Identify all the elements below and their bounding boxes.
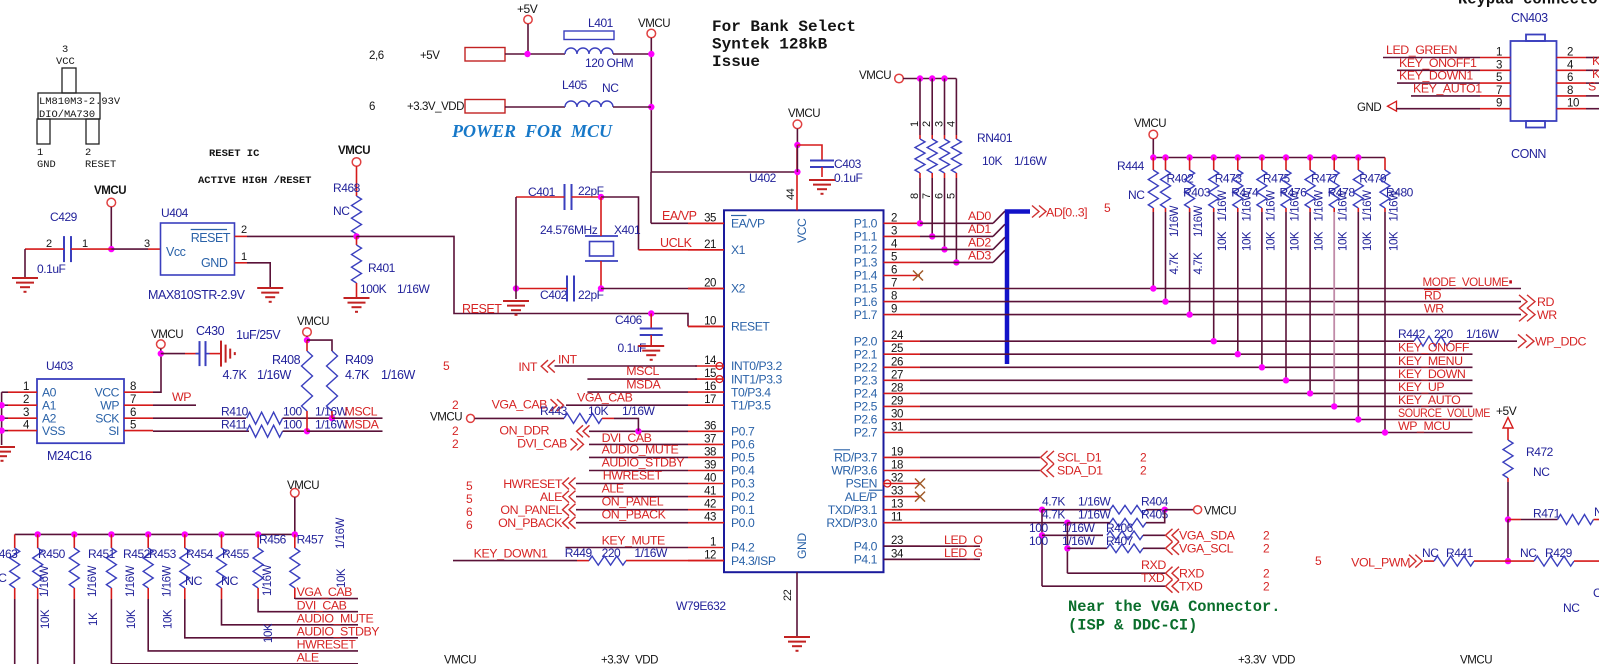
svg-text:W79E632: W79E632 bbox=[676, 599, 726, 613]
junction R408 bottom bbox=[304, 428, 310, 434]
resistor R443 10K bbox=[475, 417, 565, 419]
power flag VMCU (R404) bbox=[1194, 506, 1202, 514]
wire RD row bbox=[920, 301, 1521, 303]
wire U403 VCC to VMCU bbox=[153, 354, 161, 393]
ground at U402 bbox=[784, 637, 810, 651]
port RXD bbox=[1166, 567, 1180, 580]
svg-text:P0.5: P0.5 bbox=[731, 451, 755, 465]
svg-text:4.7K: 4.7K bbox=[1193, 252, 1205, 275]
svg-text:NC: NC bbox=[1594, 505, 1599, 519]
svg-text:1/16W: 1/16W bbox=[87, 565, 99, 597]
svg-text:1/16W: 1/16W bbox=[1362, 190, 1374, 222]
svg-text:CONN: CONN bbox=[1511, 147, 1546, 161]
U402 internal pin names bbox=[731, 216, 883, 568]
svg-text:WR: WR bbox=[1537, 308, 1557, 322]
svg-text:+3.3V_VDD: +3.3V_VDD bbox=[407, 101, 464, 113]
svg-text:ALE/P: ALE/P bbox=[845, 490, 878, 504]
junction L405/VMCU bbox=[648, 104, 654, 110]
wire U404 pin1 to ground bbox=[235, 262, 247, 264]
svg-text:UCLK: UCLK bbox=[660, 236, 693, 250]
wire U403 SI row bbox=[153, 430, 249, 432]
svg-text:RXD: RXD bbox=[1141, 558, 1166, 572]
resistor R403 4.7K bbox=[1183, 154, 1211, 317]
svg-text:5: 5 bbox=[1315, 554, 1322, 568]
svg-text:1: 1 bbox=[82, 238, 88, 250]
svg-text:R408: R408 bbox=[272, 353, 301, 367]
svg-text:MSCL: MSCL bbox=[626, 364, 659, 378]
wire to VMCU flag bbox=[1165, 509, 1194, 511]
svg-text:100K: 100K bbox=[360, 282, 387, 296]
svg-text:+3.3V_VDD: +3.3V_VDD bbox=[1238, 655, 1295, 664]
wire +5V box to L401 bbox=[505, 53, 565, 55]
junction VMCU/C403 bbox=[794, 142, 800, 148]
resistor R451 bbox=[69, 531, 79, 664]
wire KEY_ONOFF1 bbox=[1397, 69, 1480, 71]
svg-text:AD3: AD3 bbox=[968, 248, 991, 262]
svg-text:TXD: TXD bbox=[1141, 571, 1165, 585]
wire MODE_VOLUME row bbox=[920, 288, 1521, 290]
U402 left pin stubs bbox=[688, 223, 724, 560]
svg-text:P0.1: P0.1 bbox=[731, 503, 755, 517]
wire VGA_CAB row bbox=[566, 404, 688, 406]
ground at R401 bbox=[344, 298, 370, 312]
U402 pin numbers bbox=[704, 212, 904, 561]
svg-text:RESET IC: RESET IC bbox=[209, 148, 260, 160]
svg-text:AD0: AD0 bbox=[968, 209, 991, 223]
svg-text:10K: 10K bbox=[1290, 231, 1302, 251]
svg-text:VCC: VCC bbox=[56, 56, 75, 68]
svg-text:P2.6: P2.6 bbox=[854, 413, 878, 427]
svg-text:1: 1 bbox=[37, 147, 43, 159]
svg-text:100: 100 bbox=[283, 405, 302, 419]
svg-text:R410: R410 bbox=[221, 405, 249, 419]
svg-text:P2.5: P2.5 bbox=[854, 400, 878, 414]
svg-text:2: 2 bbox=[452, 398, 459, 412]
wire L405 to VMCU node bbox=[613, 106, 651, 108]
svg-text:VCC: VCC bbox=[795, 218, 809, 243]
svg-text:1K: 1K bbox=[88, 612, 100, 626]
svg-text:Issue: Issue bbox=[712, 53, 760, 71]
svg-text:6: 6 bbox=[369, 101, 375, 113]
svg-text:VMCU: VMCU bbox=[638, 18, 670, 30]
svg-text:NC: NC bbox=[333, 204, 350, 218]
svg-text:2: 2 bbox=[241, 224, 247, 236]
svg-text:NC: NC bbox=[1533, 465, 1550, 479]
svg-text:CN403: CN403 bbox=[1511, 11, 1548, 25]
svg-text:RXD/P3.0: RXD/P3.0 bbox=[826, 516, 877, 530]
junction VOL_PWM bbox=[1505, 558, 1511, 564]
svg-text:NC: NC bbox=[1563, 601, 1580, 615]
junction AD0 bbox=[917, 220, 923, 226]
wire SCL_D1 row bbox=[920, 456, 1040, 458]
svg-text:RESET: RESET bbox=[85, 159, 116, 171]
svg-text:24.576MHz: 24.576MHz bbox=[540, 223, 598, 237]
svg-text:U402: U402 bbox=[749, 171, 777, 185]
wire P2.0/WP_DDC row bbox=[920, 340, 1414, 342]
svg-text:T1/P3.5: T1/P3.5 bbox=[731, 398, 771, 412]
svg-text:4.7K: 4.7K bbox=[223, 368, 248, 382]
svg-text:VMCU: VMCU bbox=[788, 108, 820, 120]
svg-text:LED_O: LED_O bbox=[944, 533, 983, 547]
svg-text:44: 44 bbox=[785, 188, 797, 200]
svg-text:5: 5 bbox=[443, 359, 450, 373]
svg-text:NC: NC bbox=[1520, 546, 1537, 560]
wire C429 left to ground bbox=[25, 248, 64, 250]
svg-text:P0.4: P0.4 bbox=[731, 464, 755, 478]
wire KEY_DOWN1 row bbox=[453, 560, 577, 562]
port TXD bbox=[1166, 580, 1180, 593]
svg-text:RD: RD bbox=[1424, 289, 1441, 303]
resistor R479 10K bbox=[1353, 154, 1387, 422]
junction R443/ON_DDR bbox=[635, 428, 641, 434]
wire MSDA to pin16 bbox=[587, 391, 688, 393]
svg-text:INT: INT bbox=[558, 353, 577, 367]
svg-text:2: 2 bbox=[921, 121, 933, 127]
svg-text:INT1/P3.3: INT1/P3.3 bbox=[731, 372, 782, 386]
svg-text:P1.3: P1.3 bbox=[854, 256, 878, 270]
wire R443 to ON_DDR bbox=[614, 418, 638, 431]
svg-text:1/16W: 1/16W bbox=[1014, 154, 1048, 168]
svg-text:KEY_DOWN: KEY_DOWN bbox=[1398, 367, 1465, 381]
svg-text:0.1uF: 0.1uF bbox=[37, 262, 66, 276]
svg-text:5: 5 bbox=[466, 492, 473, 506]
resistor R408 4.7K bbox=[306, 340, 308, 351]
junction C402 ground leg bbox=[513, 285, 519, 291]
wire RN401 top bus bbox=[903, 78, 956, 80]
wire reset net R401 to C406/pin10 bbox=[357, 236, 689, 326]
wire C429 right to U404 pin 3 bbox=[71, 248, 111, 250]
wire RXD row bbox=[920, 522, 1067, 524]
svg-text:1/16W: 1/16W bbox=[1314, 190, 1326, 222]
junction R409 bottom bbox=[329, 415, 335, 421]
wire vertical C401-C402-ground bbox=[515, 197, 517, 289]
resistor R476 10K bbox=[1280, 154, 1308, 383]
wire RXD vertical bbox=[1066, 523, 1068, 574]
svg-text:WP_MCU: WP_MCU bbox=[1398, 419, 1450, 433]
svg-text:R451: R451 bbox=[88, 547, 116, 561]
junction TXD/R404 bbox=[1039, 507, 1045, 513]
wire AUDIO_MUTE row bbox=[589, 456, 688, 458]
svg-text:10K: 10K bbox=[982, 154, 1002, 168]
wire DVI_CAB row bbox=[589, 443, 688, 445]
svg-text:R456: R456 bbox=[259, 533, 287, 547]
svg-text:P0.7: P0.7 bbox=[731, 425, 755, 439]
svg-text:R463: R463 bbox=[0, 547, 18, 561]
note: bank select title bbox=[712, 18, 856, 71]
ground at U403 bbox=[0, 447, 15, 461]
capacitor C403 0.1uF bbox=[797, 145, 822, 161]
wire C401 right to crystal node bbox=[572, 196, 602, 198]
svg-text:AUDIO_MUTE: AUDIO_MUTE bbox=[602, 442, 679, 456]
svg-text:+5V: +5V bbox=[420, 50, 440, 62]
svg-text:AD2: AD2 bbox=[968, 235, 991, 249]
svg-text:ON_PANEL: ON_PANEL bbox=[602, 495, 664, 509]
junction VCC/EAVP bbox=[794, 169, 800, 175]
svg-text:1/16W: 1/16W bbox=[1290, 190, 1302, 222]
port AD[0..3] bbox=[1032, 206, 1046, 218]
svg-text:WP: WP bbox=[100, 399, 119, 413]
svg-text:2: 2 bbox=[452, 424, 459, 438]
svg-text:S: S bbox=[1588, 80, 1596, 94]
svg-text:P1.7: P1.7 bbox=[854, 308, 878, 322]
svg-text:0.1uF: 0.1uF bbox=[834, 171, 863, 185]
svg-text:P1.5: P1.5 bbox=[854, 282, 878, 296]
svg-text:R452: R452 bbox=[123, 547, 151, 561]
wire ON_PANEL row bbox=[576, 509, 688, 511]
wire LED_G bbox=[884, 558, 981, 560]
port box +5V bbox=[465, 48, 505, 62]
svg-text:P4.0: P4.0 bbox=[854, 539, 878, 553]
svg-text:1/16W: 1/16W bbox=[1338, 190, 1350, 222]
junction AD3 bbox=[953, 259, 959, 265]
svg-text:P0.0: P0.0 bbox=[731, 516, 755, 530]
svg-text:RD/P3.7: RD/P3.7 bbox=[834, 451, 878, 465]
junction RESET/C406 bbox=[648, 310, 654, 316]
svg-text:SI: SI bbox=[108, 424, 119, 438]
wire LED_GREEN bbox=[1383, 57, 1480, 59]
svg-text:INT: INT bbox=[518, 360, 537, 374]
svg-text:1/16W: 1/16W bbox=[262, 564, 274, 596]
svg-text:1/16W: 1/16W bbox=[1217, 190, 1229, 222]
svg-text:120 OHM: 120 OHM bbox=[585, 56, 634, 70]
svg-text:P2.0: P2.0 bbox=[854, 334, 878, 348]
svg-text:C429: C429 bbox=[50, 210, 78, 224]
wire bottom bank bus bbox=[15, 533, 295, 535]
svg-text:A0: A0 bbox=[42, 386, 57, 400]
svg-text:1/16W: 1/16W bbox=[162, 565, 174, 597]
svg-text:1/16W: 1/16W bbox=[397, 282, 431, 296]
junction AD2 bbox=[941, 246, 947, 252]
svg-text:P0.6: P0.6 bbox=[731, 438, 755, 452]
svg-text:VMCU: VMCU bbox=[151, 329, 183, 341]
svg-text:P2.1: P2.1 bbox=[854, 347, 878, 361]
svg-text:100: 100 bbox=[283, 418, 302, 432]
wire WR row bbox=[920, 314, 1521, 316]
svg-text:KEY_UP: KEY_UP bbox=[1398, 380, 1444, 394]
U402 right pin stubs bbox=[884, 223, 921, 559]
no-connect X ALE/P bbox=[915, 492, 925, 502]
svg-text:10K: 10K bbox=[1389, 231, 1401, 251]
ground at C429 bbox=[12, 278, 38, 292]
svg-text:10K: 10K bbox=[1362, 231, 1374, 251]
ground at C406 bbox=[638, 346, 664, 360]
svg-text:+3.3V_VDD: +3.3V_VDD bbox=[601, 655, 658, 664]
CN403 left pin numbers bbox=[1496, 47, 1502, 110]
CN403 right pin numbers bbox=[1567, 47, 1579, 110]
junction AD1 bbox=[929, 233, 935, 239]
bus AD[0..3] thick bbox=[1007, 212, 1030, 365]
junction R407 tap bbox=[1064, 545, 1070, 551]
svg-text:1/16W: 1/16W bbox=[1078, 508, 1112, 522]
wire U404 pin2 to R468 node bbox=[235, 235, 247, 237]
svg-text:R443: R443 bbox=[540, 404, 568, 418]
svg-text:220: 220 bbox=[1434, 327, 1453, 341]
resistor R401 100K bbox=[356, 236, 358, 245]
wire C402 left to ground node bbox=[516, 288, 567, 290]
resistor R474 10K bbox=[1231, 154, 1259, 357]
svg-text:NC: NC bbox=[221, 574, 238, 588]
svg-text:R453: R453 bbox=[149, 547, 177, 561]
junction R406 tap bbox=[1039, 532, 1045, 538]
resistor R450 bbox=[33, 531, 43, 664]
wire EA/VP loop bbox=[651, 171, 797, 173]
wire VMCU vertical bbox=[650, 38, 652, 172]
svg-text:P1.0: P1.0 bbox=[854, 217, 878, 231]
svg-text:X1: X1 bbox=[731, 243, 746, 257]
svg-text:R450: R450 bbox=[38, 547, 66, 561]
svg-text:ON_PBACK: ON_PBACK bbox=[602, 508, 667, 522]
svg-text:R457: R457 bbox=[297, 533, 325, 547]
svg-text:P2.4: P2.4 bbox=[854, 387, 878, 401]
svg-text:ALE: ALE bbox=[602, 482, 624, 496]
svg-text:EA/VP: EA/VP bbox=[662, 209, 697, 223]
svg-text:VGA_CAB: VGA_CAB bbox=[577, 391, 633, 405]
reset supervisor package U401 LM810M3 bbox=[37, 68, 100, 144]
svg-text:SCL_D1: SCL_D1 bbox=[1057, 451, 1102, 465]
svg-text:KEY_ONOFF: KEY_ONOFF bbox=[1398, 341, 1470, 355]
svg-text:GND: GND bbox=[795, 533, 809, 559]
svg-text:WR: WR bbox=[1424, 302, 1444, 316]
wire U403 SCK row bbox=[153, 417, 246, 419]
svg-text:VGA_SDA: VGA_SDA bbox=[1179, 529, 1236, 543]
svg-text:R449: R449 bbox=[565, 546, 593, 560]
resistor R475 10K bbox=[1257, 154, 1291, 370]
resistor R471 bbox=[1508, 519, 1521, 521]
resistor R409 4.7K bbox=[307, 340, 332, 351]
wires AD nets diagonals bbox=[920, 222, 993, 224]
resistor R456 bbox=[253, 531, 358, 612]
svg-text:RD: RD bbox=[1537, 295, 1554, 309]
wire TXD to port bbox=[1042, 585, 1166, 587]
resistor R473 10K bbox=[1209, 154, 1243, 344]
svg-text:VMCU: VMCU bbox=[94, 185, 126, 197]
svg-text:U403: U403 bbox=[46, 359, 74, 373]
resistor R480 10K bbox=[1380, 158, 1414, 436]
resistor R454 bbox=[180, 531, 358, 638]
svg-text:4.7K: 4.7K bbox=[345, 368, 370, 382]
svg-text:1/16W: 1/16W bbox=[1241, 190, 1253, 222]
svg-text:KEY_AUTO: KEY_AUTO bbox=[1398, 393, 1461, 407]
wire X1 net bbox=[601, 197, 639, 250]
svg-text:6: 6 bbox=[466, 518, 473, 532]
svg-text:C: C bbox=[1593, 586, 1599, 600]
svg-text:5: 5 bbox=[466, 479, 473, 493]
pin bubble PSEN bbox=[884, 480, 891, 487]
svg-text:X401: X401 bbox=[614, 223, 641, 237]
svg-text:VMCU: VMCU bbox=[859, 70, 891, 82]
svg-text:RN401: RN401 bbox=[977, 131, 1013, 145]
svg-text:AUDIO_MUTE: AUDIO_MUTE bbox=[297, 611, 374, 625]
resistor R463 bbox=[10, 534, 20, 664]
wire LED_O bbox=[884, 545, 981, 547]
CN403 right wires bbox=[1557, 58, 1599, 109]
svg-text:VCC: VCC bbox=[95, 386, 120, 400]
svg-text:0.1uF: 0.1uF bbox=[618, 341, 647, 355]
svg-text:DVI_CAB: DVI_CAB bbox=[517, 437, 567, 451]
pin 44 VCC top bbox=[796, 145, 798, 210]
junction R408/R409 top bbox=[304, 337, 310, 343]
svg-text:4.7K: 4.7K bbox=[1042, 495, 1065, 509]
svg-text:1/16W: 1/16W bbox=[634, 546, 668, 560]
svg-text:WR/P3.6: WR/P3.6 bbox=[831, 464, 877, 478]
wire ON_PBACK row bbox=[576, 522, 688, 524]
junction C401/X1 bbox=[598, 194, 604, 200]
svg-text:R468: R468 bbox=[333, 181, 361, 195]
svg-text:VOL_PWM: VOL_PWM bbox=[1351, 556, 1410, 570]
svg-text:KEY_MENU: KEY_MENU bbox=[1398, 354, 1463, 368]
svg-text:SOURCE_VOLUME: SOURCE_VOLUME bbox=[1398, 406, 1490, 420]
svg-text:KEY_AUTO1: KEY_AUTO1 bbox=[1413, 81, 1482, 95]
svg-text:TXD: TXD bbox=[1179, 580, 1203, 594]
wire INT row bbox=[555, 365, 698, 367]
svg-text:R411: R411 bbox=[221, 418, 248, 432]
wire TXD vertical bbox=[1041, 510, 1043, 587]
svg-text:LED_G: LED_G bbox=[944, 546, 982, 560]
svg-text:VGA_CAB: VGA_CAB bbox=[297, 585, 353, 599]
no-connect X PSEN bbox=[915, 479, 925, 489]
svg-text:ON_PANEL: ON_PANEL bbox=[500, 503, 562, 517]
svg-text:2: 2 bbox=[1140, 451, 1147, 465]
ground at U404 pin1 bbox=[257, 288, 283, 302]
svg-text:ON_DDR: ON_DDR bbox=[499, 424, 549, 438]
svg-text:1: 1 bbox=[909, 121, 921, 127]
svg-text:5: 5 bbox=[1104, 201, 1111, 215]
svg-text:Syntek 128kB: Syntek 128kB bbox=[712, 36, 828, 54]
ground at C403 bbox=[809, 180, 835, 194]
svg-text:MSDA: MSDA bbox=[626, 377, 661, 391]
svg-text:+5V: +5V bbox=[517, 2, 538, 16]
svg-text:WP_DDC: WP_DDC bbox=[1535, 335, 1586, 349]
junction VMCU/C429 bbox=[108, 246, 114, 252]
svg-text:X2: X2 bbox=[731, 282, 746, 296]
note: Near the VGA Connector bbox=[1068, 598, 1280, 635]
net labels bottom left bbox=[297, 585, 380, 664]
svg-text:AUDIO_STDBY: AUDIO_STDBY bbox=[297, 624, 380, 638]
wire ALE row bbox=[576, 496, 688, 498]
junction R468/R401/reset bbox=[353, 233, 359, 239]
svg-text:100: 100 bbox=[1029, 534, 1048, 548]
resistor network RN401 bbox=[909, 79, 1048, 200]
svg-text:1/16W: 1/16W bbox=[1078, 495, 1112, 509]
svg-text:POWER FOR MCU: POWER FOR MCU bbox=[451, 121, 613, 141]
svg-text:Keypad connector: Keypad connector bbox=[1458, 0, 1599, 9]
svg-text:SDA_D1: SDA_D1 bbox=[1057, 464, 1103, 478]
svg-text:T0/P3.4: T0/P3.4 bbox=[731, 385, 771, 399]
svg-text:MSDA: MSDA bbox=[345, 418, 380, 432]
ground sideways at C430 bbox=[221, 341, 235, 367]
svg-text:+5V: +5V bbox=[1496, 404, 1517, 418]
svg-text:10K: 10K bbox=[40, 609, 52, 629]
svg-text:3: 3 bbox=[934, 121, 946, 127]
svg-text:4: 4 bbox=[945, 121, 957, 127]
wire L401 to VMCU node bbox=[613, 53, 651, 55]
svg-text:P0.2: P0.2 bbox=[731, 490, 755, 504]
svg-text:1/16W: 1/16W bbox=[1389, 190, 1401, 222]
svg-text:DVI_CAB: DVI_CAB bbox=[297, 598, 347, 612]
svg-text:C403: C403 bbox=[834, 157, 862, 171]
svg-text:R454: R454 bbox=[186, 547, 214, 561]
svg-text:L405: L405 bbox=[562, 78, 588, 92]
wire VMCU node vertical bbox=[796, 145, 798, 172]
svg-text:R472: R472 bbox=[1526, 445, 1554, 459]
svg-text:1uF/25V: 1uF/25V bbox=[236, 328, 281, 342]
svg-text:10K: 10K bbox=[1217, 231, 1229, 251]
svg-text:VSS: VSS bbox=[42, 424, 65, 438]
svg-text:P2.2: P2.2 bbox=[854, 361, 878, 375]
svg-text:C430: C430 bbox=[196, 324, 225, 338]
svg-text:10K: 10K bbox=[1338, 231, 1350, 251]
svg-text:EA/VP: EA/VP bbox=[731, 217, 765, 231]
